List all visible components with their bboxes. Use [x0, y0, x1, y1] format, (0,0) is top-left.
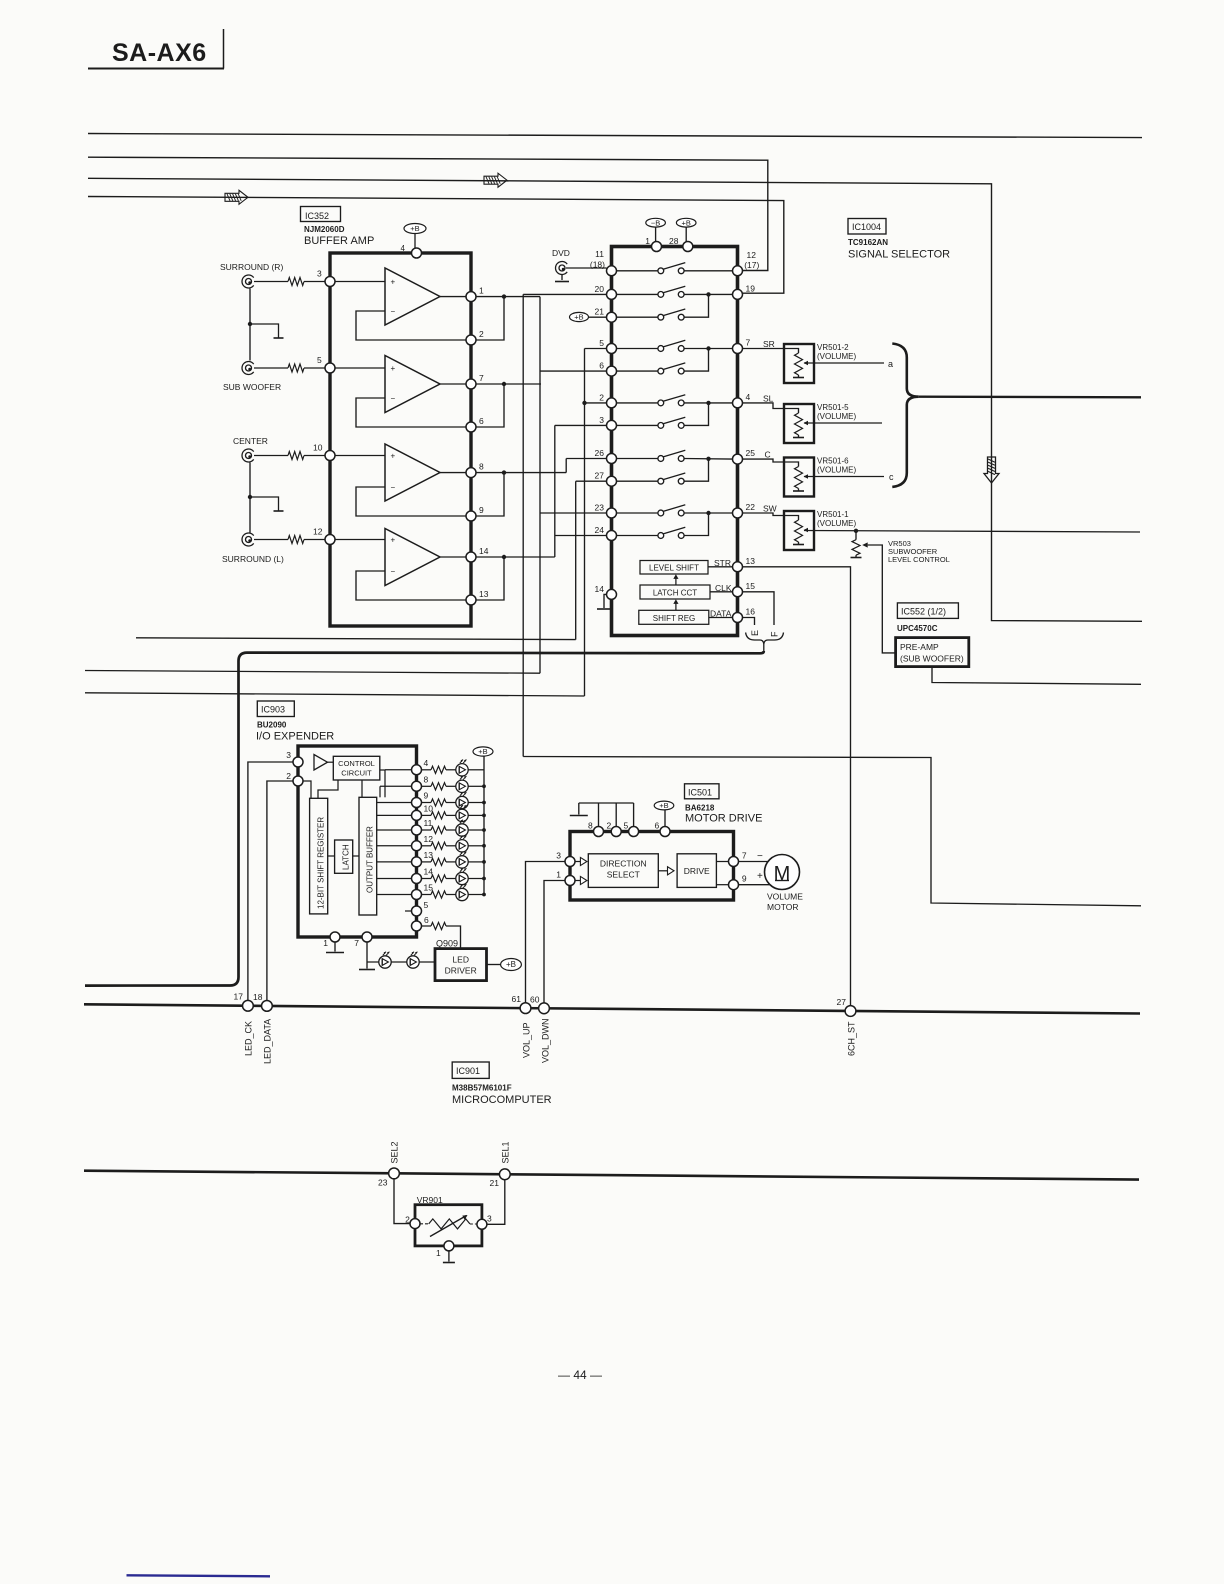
svg-text:7: 7 — [742, 851, 747, 861]
svg-text:NJM2060D: NJM2060D — [304, 225, 345, 234]
svg-text:M38B57M6101F: M38B57M6101F — [452, 1084, 512, 1093]
svg-text:12-BIT SHIFT REGISTER: 12-BIT SHIFT REGISTER — [317, 817, 326, 909]
svg-text:−: − — [757, 851, 763, 862]
svg-text:+B: +B — [574, 313, 583, 322]
svg-text:21: 21 — [490, 1178, 500, 1188]
svg-text:12: 12 — [747, 250, 757, 260]
svg-text:23: 23 — [595, 503, 605, 513]
svg-text:BU2090: BU2090 — [257, 721, 287, 730]
svg-text:LEVEL CONTROL: LEVEL CONTROL — [888, 555, 950, 564]
svg-text:IC352: IC352 — [305, 211, 329, 221]
svg-text:5: 5 — [624, 821, 629, 831]
svg-text:LED: LED — [452, 955, 469, 965]
svg-text:Q909: Q909 — [436, 939, 458, 949]
svg-text:VR501-2: VR501-2 — [817, 343, 849, 352]
svg-text:E: E — [750, 630, 760, 636]
svg-text:6: 6 — [599, 361, 604, 371]
svg-text:DIRECTION: DIRECTION — [600, 859, 647, 869]
svg-text:3: 3 — [487, 1214, 492, 1224]
svg-text:MOTOR DRIVE: MOTOR DRIVE — [685, 813, 762, 825]
svg-text:MOTOR: MOTOR — [767, 902, 798, 912]
svg-text:13: 13 — [479, 589, 489, 599]
svg-text:+B: +B — [410, 224, 419, 233]
svg-text:6: 6 — [424, 915, 429, 925]
svg-text:DRIVE: DRIVE — [684, 866, 710, 876]
svg-text:10: 10 — [313, 443, 323, 453]
svg-text:14: 14 — [424, 867, 434, 877]
svg-text:IC552 (1/2): IC552 (1/2) — [901, 607, 946, 617]
svg-text:24: 24 — [595, 525, 605, 535]
svg-text:1: 1 — [479, 286, 484, 296]
svg-text:3: 3 — [286, 750, 291, 760]
svg-text:F: F — [770, 631, 780, 637]
svg-text:+: + — [391, 536, 396, 545]
svg-text:15: 15 — [746, 581, 756, 591]
svg-text:(VOLUME): (VOLUME) — [817, 352, 856, 361]
svg-text:SW: SW — [763, 504, 777, 514]
svg-text:13: 13 — [746, 556, 756, 566]
svg-text:LEVEL SHIFT: LEVEL SHIFT — [649, 564, 699, 573]
svg-text:15: 15 — [424, 883, 434, 893]
svg-text:9: 9 — [742, 874, 747, 884]
svg-text:+B: +B — [659, 801, 668, 810]
svg-text:VOL_UP: VOL_UP — [522, 1022, 532, 1058]
svg-text:17: 17 — [234, 992, 244, 1002]
svg-text:LED_DATA: LED_DATA — [263, 1019, 273, 1064]
svg-text:VOL_DWN: VOL_DWN — [541, 1018, 551, 1063]
svg-text:7: 7 — [479, 373, 484, 383]
svg-text:(17): (17) — [744, 260, 759, 270]
svg-text:2: 2 — [479, 329, 484, 339]
svg-text:SR: SR — [763, 339, 775, 349]
svg-text:9: 9 — [424, 791, 429, 801]
svg-text:SL: SL — [763, 393, 774, 403]
svg-text:27: 27 — [595, 471, 605, 481]
svg-text:a: a — [888, 359, 893, 369]
svg-text:CIRCUIT: CIRCUIT — [341, 769, 372, 778]
svg-text:8: 8 — [588, 821, 593, 831]
svg-text:9: 9 — [479, 505, 484, 515]
svg-text:SELECT: SELECT — [607, 870, 640, 880]
svg-text:11: 11 — [424, 818, 433, 828]
svg-text:UPC4570C: UPC4570C — [897, 624, 938, 633]
svg-text:4: 4 — [746, 392, 751, 402]
svg-text:28: 28 — [669, 236, 679, 246]
svg-text:22: 22 — [746, 502, 756, 512]
svg-text:14: 14 — [595, 584, 605, 594]
svg-text:1: 1 — [645, 236, 650, 246]
svg-text:I/O EXPENDER: I/O EXPENDER — [256, 731, 334, 743]
svg-text:+: + — [391, 364, 396, 373]
svg-text:IC1004: IC1004 — [852, 222, 881, 232]
svg-text:−: − — [391, 394, 396, 403]
svg-text:+B: +B — [478, 747, 487, 756]
svg-text:3: 3 — [599, 415, 604, 425]
svg-text:c: c — [889, 472, 894, 482]
svg-text:SURROUND (R): SURROUND (R) — [220, 262, 283, 272]
svg-text:SEL1: SEL1 — [501, 1141, 511, 1163]
svg-text:3: 3 — [317, 269, 322, 279]
svg-text:5: 5 — [317, 355, 322, 365]
svg-text:VR501-6: VR501-6 — [817, 457, 849, 466]
svg-text:M: M — [774, 863, 791, 885]
svg-text:+B: +B — [506, 960, 516, 969]
svg-text:61: 61 — [512, 994, 522, 1004]
svg-text:−B: −B — [651, 218, 660, 227]
svg-text:(VOLUME): (VOLUME) — [817, 519, 856, 528]
svg-text:13: 13 — [424, 850, 434, 860]
svg-text:12: 12 — [424, 834, 434, 844]
svg-text:BA6218: BA6218 — [685, 804, 715, 813]
svg-text:27: 27 — [837, 997, 847, 1007]
svg-text:SURROUND (L): SURROUND (L) — [222, 554, 284, 564]
svg-text:2: 2 — [599, 392, 604, 402]
svg-text:(VOLUME): (VOLUME) — [817, 466, 856, 475]
svg-text:60: 60 — [530, 994, 540, 1004]
svg-text:7: 7 — [354, 938, 359, 948]
svg-text:6CH_ST: 6CH_ST — [847, 1021, 857, 1056]
svg-text:12: 12 — [313, 527, 323, 537]
svg-text:19: 19 — [746, 283, 756, 293]
svg-text:SIGNAL SELECTOR: SIGNAL SELECTOR — [848, 249, 950, 261]
svg-text:(SUB WOOFER): (SUB WOOFER) — [900, 654, 964, 664]
svg-text:25: 25 — [746, 448, 756, 458]
svg-text:CONTROL: CONTROL — [338, 759, 375, 768]
svg-text:+: + — [757, 871, 763, 882]
svg-text:(VOLUME): (VOLUME) — [817, 412, 856, 421]
svg-text:18: 18 — [253, 992, 263, 1002]
svg-text:21: 21 — [595, 307, 605, 317]
svg-text:1: 1 — [436, 1248, 441, 1258]
svg-text:+B: +B — [682, 218, 691, 227]
svg-text:16: 16 — [746, 607, 756, 617]
svg-text:7: 7 — [746, 338, 751, 348]
svg-text:8: 8 — [424, 774, 429, 784]
svg-text:1: 1 — [323, 938, 328, 948]
svg-text:SUB WOOFER: SUB WOOFER — [223, 382, 281, 392]
svg-text:IC903: IC903 — [261, 705, 285, 715]
svg-text:VOLUME: VOLUME — [767, 892, 803, 902]
svg-text:26: 26 — [595, 448, 605, 458]
svg-text:3: 3 — [556, 851, 561, 861]
svg-text:23: 23 — [378, 1178, 388, 1188]
svg-text:6: 6 — [655, 821, 660, 831]
svg-text:LATCH: LATCH — [342, 844, 351, 870]
svg-text:−: − — [391, 307, 396, 316]
svg-text:(18): (18) — [590, 260, 605, 270]
svg-text:DRIVER: DRIVER — [445, 966, 477, 976]
svg-text:— 44 —: — 44 — — [558, 1368, 602, 1382]
svg-text:5: 5 — [599, 338, 604, 348]
svg-text:+: + — [391, 278, 396, 287]
svg-text:+: + — [391, 452, 396, 461]
svg-text:6: 6 — [479, 416, 484, 426]
svg-text:−: − — [391, 483, 396, 492]
svg-text:SA-AX6: SA-AX6 — [112, 39, 207, 67]
svg-text:VR501-1: VR501-1 — [817, 510, 849, 519]
svg-text:DVD: DVD — [552, 248, 570, 258]
svg-text:2: 2 — [607, 821, 612, 831]
svg-text:2: 2 — [286, 771, 291, 781]
svg-text:TC9162AN: TC9162AN — [848, 238, 888, 247]
svg-text:SHIFT REG: SHIFT REG — [653, 614, 696, 623]
svg-text:LED_CK: LED_CK — [244, 1021, 254, 1056]
svg-text:IC501: IC501 — [688, 788, 712, 798]
svg-text:CENTER: CENTER — [233, 436, 268, 446]
svg-text:2: 2 — [405, 1215, 410, 1225]
svg-text:C: C — [765, 450, 771, 460]
svg-text:OUTPUT BUFFER: OUTPUT BUFFER — [366, 826, 375, 893]
svg-text:MICROCOMPUTER: MICROCOMPUTER — [452, 1094, 552, 1106]
svg-text:5: 5 — [424, 900, 429, 910]
svg-text:14: 14 — [479, 546, 489, 556]
svg-text:−: − — [391, 567, 396, 576]
svg-text:1: 1 — [556, 870, 561, 880]
svg-text:20: 20 — [595, 284, 605, 294]
svg-text:PRE-AMP: PRE-AMP — [900, 642, 939, 652]
svg-text:11: 11 — [595, 249, 604, 259]
svg-text:4: 4 — [424, 758, 429, 768]
svg-text:LATCH CCT: LATCH CCT — [653, 589, 697, 598]
svg-text:8: 8 — [479, 462, 484, 472]
svg-text:SEL2: SEL2 — [390, 1141, 400, 1163]
svg-text:10: 10 — [424, 803, 434, 813]
svg-text:VR501-5: VR501-5 — [817, 403, 849, 412]
svg-text:IC901: IC901 — [456, 1066, 480, 1076]
svg-text:BUFFER AMP: BUFFER AMP — [304, 235, 374, 247]
